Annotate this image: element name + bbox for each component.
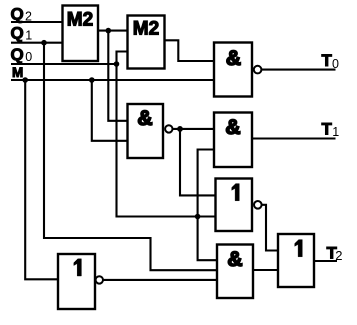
input label Q0 (11, 45, 33, 64)
wire net Q2 to U1 pin 1 (11, 21, 63, 23)
inverter bubble U8 output (96, 276, 103, 283)
AND gate U3 (214, 43, 252, 97)
wire net Q0 horizontal (11, 63, 117, 65)
inverter bubble U3 output (254, 66, 262, 74)
node U1 output junction (106, 28, 112, 34)
input label M (12, 65, 23, 80)
svg-text:1: 1 (332, 125, 339, 139)
AND gate U7 (217, 245, 253, 299)
wire net M branch to U4 pin 2 (92, 80, 128, 141)
svg-text:M: M (12, 65, 23, 80)
NOT gate U8 (1) (58, 254, 95, 309)
svg-text:T: T (322, 119, 333, 138)
OR gate U6 (1) (216, 179, 253, 232)
wire net Q0 branch up to U5 pin 2 (198, 150, 214, 217)
output label T1 (322, 119, 340, 139)
svg-text:&: & (225, 116, 240, 139)
svg-text:T: T (322, 51, 333, 70)
svg-text:Q: Q (11, 24, 24, 43)
node Q1 junction (41, 40, 47, 46)
wire U3 output to T0 (262, 69, 336, 71)
node U4 output junction (177, 126, 183, 132)
XOR gate U2 (M2) (128, 16, 165, 69)
AND gate U5 (214, 113, 252, 168)
wire U6 output to U9 pin 1 (262, 205, 278, 251)
wire U2 output to U3 pin 1 (165, 40, 215, 61)
svg-text:M2: M2 (133, 19, 159, 40)
output label T0 (322, 51, 340, 71)
svg-text:0: 0 (25, 50, 32, 64)
OR gate U9 (1) (278, 234, 314, 287)
svg-text:Q: Q (11, 45, 24, 64)
node M junction mid (89, 77, 95, 83)
input label Q2 (11, 5, 33, 24)
inverter bubble U4 output (165, 125, 172, 132)
wire net Q0 branch down to U7 pin 1 (198, 217, 217, 261)
wire net Q0 branch down to U6 pin 2 (117, 64, 216, 217)
wire net M horizontal to U3 pin 2 (11, 79, 214, 81)
node Q0 branch junction (195, 214, 201, 220)
wire net Q0 branch up to U2 pin 2 (117, 52, 128, 65)
wire U4 output branch to U6 pin 1 (180, 129, 216, 196)
svg-text:&: & (226, 47, 241, 70)
output label T2 (327, 244, 343, 263)
wire net Q1 to U1 pin 2 (11, 42, 63, 44)
svg-text:Q: Q (11, 5, 24, 24)
node M junction left (22, 77, 28, 83)
svg-text:M2: M2 (67, 10, 93, 31)
svg-text:0: 0 (332, 57, 339, 71)
wire U1 output branch to U4 pin 1 (108, 31, 127, 121)
input label Q1 (11, 24, 33, 43)
wire net Q1 branch to U7 input (44, 43, 217, 271)
svg-text:2: 2 (335, 248, 342, 263)
wire U5 output to T1 (252, 137, 336, 139)
XOR gate U1 (M2) (63, 6, 99, 62)
svg-text:&: & (137, 107, 152, 130)
wire U7 output to U9 pin 2 (253, 269, 278, 271)
wire U1 output to U2 pin 1 (98, 30, 128, 32)
wire U4 output to U5 pin 1 (173, 128, 214, 130)
inverter bubble U6 output (254, 201, 262, 209)
wire U9 output to T2 (314, 260, 337, 262)
AND gate U4 (128, 104, 164, 158)
svg-text:1: 1 (25, 29, 32, 43)
wire net M branch down to U8 input (25, 80, 58, 279)
svg-text:&: & (227, 248, 242, 271)
wire U8 output to U7 pin 3 (103, 279, 217, 281)
node Q0 junction (114, 61, 120, 67)
